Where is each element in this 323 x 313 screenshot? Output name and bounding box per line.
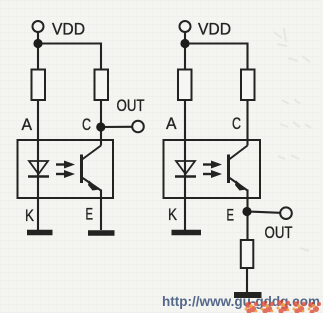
svg-text:K: K <box>25 206 35 225</box>
svg-text:E: E <box>86 205 94 224</box>
svg-text:A: A <box>22 115 33 134</box>
svg-text:VDD: VDD <box>52 20 85 39</box>
svg-text:C: C <box>232 114 241 133</box>
svg-text:K: K <box>168 205 178 224</box>
svg-text:VDD: VDD <box>198 20 231 39</box>
svg-text:C: C <box>82 115 91 134</box>
svg-text:E: E <box>227 206 235 225</box>
svg-text:OUT: OUT <box>117 96 145 115</box>
svg-text:A: A <box>166 114 177 133</box>
svg-text:OUT: OUT <box>265 223 293 242</box>
